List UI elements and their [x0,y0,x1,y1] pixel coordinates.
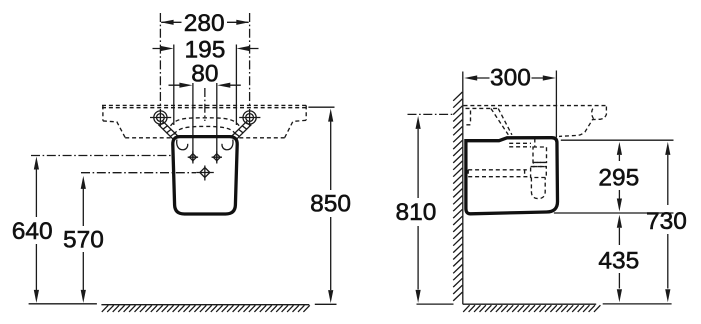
svg-text:80: 80 [191,61,218,88]
svg-text:435: 435 [598,248,639,275]
svg-text:850: 850 [310,191,351,218]
svg-text:280: 280 [184,10,225,37]
svg-text:295: 295 [598,164,639,191]
svg-text:195: 195 [184,36,225,63]
svg-text:570: 570 [63,227,104,254]
svg-text:810: 810 [395,199,436,226]
svg-text:640: 640 [12,218,53,245]
svg-text:730: 730 [646,208,687,235]
svg-text:300: 300 [490,65,531,92]
